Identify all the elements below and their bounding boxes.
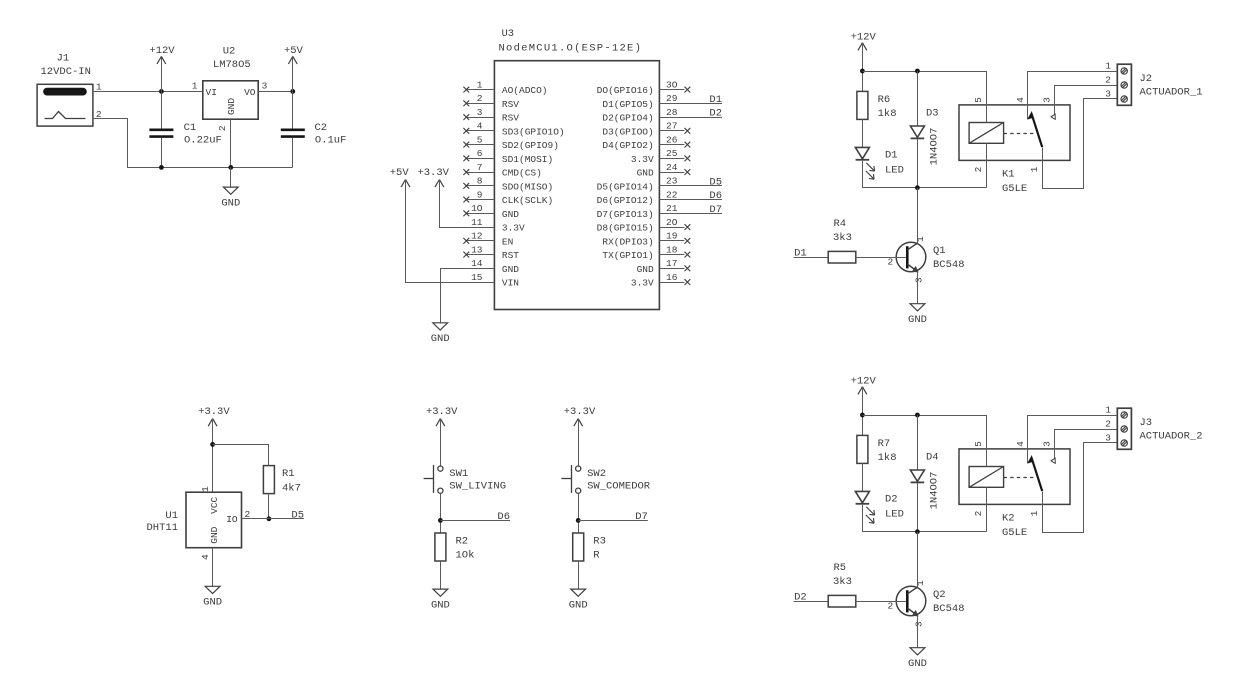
svg-text:+5V: +5V [390, 167, 410, 179]
svg-text:D7: D7 [635, 511, 648, 523]
svg-text:25: 25 [666, 148, 678, 159]
svg-text:3: 3 [1105, 433, 1111, 444]
svg-text:4: 4 [477, 121, 483, 132]
svg-text:3: 3 [477, 107, 483, 118]
svg-text:14: 14 [471, 258, 483, 269]
diode D3 1N4007 flyback [917, 71, 919, 126]
svg-text:R3: R3 [593, 536, 606, 548]
svg-text:SD3(GPIO1O): SD3(GPIO1O) [502, 126, 565, 137]
svg-text:O.1uF: O.1uF [315, 135, 347, 147]
U3 pin 24 GND [659, 172, 684, 174]
svg-text:3: 3 [262, 80, 268, 91]
regulator U2 LM7805 [203, 81, 258, 119]
svg-text:3.3V: 3.3V [502, 223, 525, 234]
wire J1 pin1 to LM7805 VI [93, 91, 203, 93]
svg-text:2: 2 [888, 256, 894, 267]
junction U2 GND node [228, 165, 233, 170]
junction +5V node [290, 89, 295, 94]
wire U3 GND pin14 to ground [441, 269, 495, 323]
svg-text:D5(GPIO14): D5(GPIO14) [597, 181, 654, 192]
svg-text:3: 3 [914, 621, 925, 627]
wire R6 to LED [862, 119, 864, 147]
wire D1 to R4 [794, 257, 829, 259]
svg-text:GND: GND [226, 98, 237, 115]
U3 pin 8 SDO(MISO) [466, 185, 495, 187]
resistor R2 10k pulldown [435, 533, 446, 561]
wire J1 pin2 to ground rail [93, 119, 293, 168]
svg-text:D5: D5 [709, 176, 722, 188]
svg-text:C1: C1 [184, 122, 197, 134]
U3 pin 7 CMD(CS) [466, 172, 495, 174]
junction transistor collector node [915, 185, 920, 190]
U3 pin 26 D4(GPIO2) [659, 144, 684, 146]
wire SW2 to junction [578, 493, 580, 533]
svg-text:D1(GPIO5): D1(GPIO5) [602, 99, 653, 110]
wire Q2 emitter to ground [917, 616, 919, 648]
svg-text:1Ok: 1Ok [456, 550, 475, 562]
K2 pin 5 coil+ [986, 415, 988, 467]
svg-text:+5V: +5V [284, 45, 304, 57]
svg-text:2: 2 [1105, 419, 1111, 430]
K1 pin 2 coil- [986, 143, 988, 187]
svg-text:5: 5 [477, 134, 483, 145]
wire R1 to IO line [268, 494, 270, 519]
svg-text:5: 5 [973, 441, 984, 447]
svg-text:2: 2 [1105, 75, 1111, 86]
power +12V (K2 channel) [858, 387, 862, 395]
svg-text:3: 3 [1042, 97, 1053, 103]
svg-text:1: 1 [1105, 405, 1111, 416]
svg-text:BC548: BC548 [933, 259, 965, 271]
svg-text:13: 13 [471, 244, 483, 255]
svg-text:2: 2 [217, 125, 228, 131]
wire R3 to ground [578, 561, 580, 589]
svg-text:+12V: +12V [851, 31, 877, 43]
svg-text:11: 11 [471, 217, 483, 228]
junction C1 ground [159, 165, 164, 170]
svg-text:BC548: BC548 [933, 603, 965, 615]
svg-text:R: R [593, 550, 600, 562]
svg-text:12: 12 [471, 231, 483, 242]
svg-text:VI: VI [206, 87, 217, 98]
resistor R3 R pulldown [573, 533, 584, 561]
junction SW2 output [576, 518, 581, 523]
svg-text:GND: GND [209, 526, 220, 543]
svg-text:1N4OO7: 1N4OO7 [929, 128, 941, 166]
wire branch to R1 [213, 445, 269, 466]
svg-text:28: 28 [666, 107, 678, 118]
power +12V (K1 channel) [858, 43, 862, 51]
svg-text:R1: R1 [282, 468, 295, 480]
svg-text:16: 16 [666, 272, 678, 283]
U3 pin 29 D1(GPIO5) [659, 103, 722, 105]
svg-text:Q1: Q1 [933, 245, 946, 257]
svg-text:1: 1 [1105, 61, 1111, 72]
svg-text:D4: D4 [926, 452, 939, 464]
switch SW1 SW_LIVING [438, 466, 443, 471]
connector J2 ACTUADOR_1 [1117, 64, 1131, 105]
svg-text:2O: 2O [666, 217, 678, 228]
svg-text:19: 19 [666, 231, 678, 242]
svg-text:GND: GND [908, 314, 927, 326]
svg-text:15: 15 [471, 272, 483, 283]
ground (Q1) [910, 304, 925, 311]
svg-text:Q2: Q2 [933, 589, 946, 601]
svg-text:4: 4 [200, 554, 211, 560]
K2 pin 2 coil- [986, 487, 988, 531]
junction R1 / IO node [267, 516, 272, 521]
svg-text:J1: J1 [57, 52, 70, 64]
junction diode branch top [915, 69, 920, 74]
connector J3 ACTUADOR_2 [1117, 408, 1131, 449]
wire to net label D6 [440, 520, 510, 522]
U3 pin 17 GND [659, 268, 684, 270]
svg-text:D6(GPIO12): D6(GPIO12) [597, 195, 654, 206]
svg-text:D2(GPIO4): D2(GPIO4) [602, 113, 653, 124]
svg-text:U2: U2 [223, 46, 236, 58]
wire R4 to Q1 base [856, 257, 906, 259]
wire R5 to Q2 base [856, 601, 906, 603]
wire +12V down to rail [862, 387, 864, 436]
svg-text:RSV: RSV [502, 99, 519, 110]
junction +12V rail left [860, 69, 865, 74]
wire +12V rail [862, 415, 986, 417]
svg-text:D8(GPIO15): D8(GPIO15) [597, 223, 654, 234]
junction transistor collector node [915, 529, 920, 534]
svg-text:D4(GPIO2): D4(GPIO2) [602, 140, 653, 151]
svg-text:6: 6 [477, 148, 483, 159]
switch SW2 SW_COMEDOR [576, 466, 581, 471]
svg-text:29: 29 [666, 93, 678, 104]
svg-text:O.22uF: O.22uF [184, 135, 222, 147]
U3 pin 19 RX(DPIO3) [659, 240, 684, 242]
svg-text:NodeMCU1.O(ESP-12E): NodeMCU1.O(ESP-12E) [499, 43, 643, 55]
wire +5V to U3 VIN pin15 [406, 180, 495, 283]
svg-text:SD1(MOSI): SD1(MOSI) [502, 154, 553, 165]
U3 pin 18 TX(GPIO1) [659, 254, 684, 256]
svg-text:G5LE: G5LE [1002, 527, 1027, 539]
svg-text:CMD(CS): CMD(CS) [502, 168, 542, 179]
ground (SW1) [433, 589, 448, 596]
svg-text:3k3: 3k3 [833, 576, 852, 588]
transistor Q2 BC548 [917, 532, 919, 587]
svg-text:8: 8 [477, 176, 483, 187]
svg-text:+12V: +12V [851, 375, 877, 387]
svg-text:TX(GPIO1): TX(GPIO1) [602, 250, 653, 261]
wire U1 IO to net label D5 [242, 518, 305, 520]
resistor R6 1k8 [857, 91, 868, 119]
U3 pin 23 D5(GPIO14) [659, 185, 722, 187]
U3 pin 6 SD1(MOSI) [466, 158, 495, 160]
svg-text:+12V: +12V [149, 45, 175, 57]
svg-text:RSV: RSV [502, 113, 519, 124]
capacitor C1 0.22uF [161, 91, 163, 128]
svg-text:DHT11: DHT11 [146, 522, 178, 534]
svg-text:+3.3V: +3.3V [426, 406, 458, 418]
U3 pin 13 RST [466, 254, 495, 256]
svg-text:R4: R4 [834, 218, 847, 230]
wire +3.3V to SW2 [578, 419, 580, 466]
svg-text:D1: D1 [885, 149, 898, 161]
wire +12V down to rail [862, 43, 864, 92]
svg-text:GND: GND [203, 597, 222, 609]
svg-text:4k7: 4k7 [282, 482, 301, 494]
svg-text:3O: 3O [666, 79, 678, 90]
svg-text:D7(GPIO13): D7(GPIO13) [597, 209, 654, 220]
wire +3.3V down to U1 VCC [212, 419, 214, 493]
power +3.3V (to 3.3V pin11) [435, 180, 439, 188]
wire U2 GND pin down [230, 119, 232, 167]
svg-text:2: 2 [888, 600, 894, 611]
svg-text:GND: GND [908, 658, 927, 670]
U3 pin 28 D2(GPIO4) [659, 117, 722, 119]
wire R2 to ground [440, 561, 442, 589]
power +3.3V (SW1) [436, 419, 440, 427]
svg-text:2: 2 [973, 166, 984, 172]
svg-text:D2: D2 [709, 108, 722, 120]
ground (power supply) [230, 167, 232, 187]
power +5V (regulator output) [292, 56, 294, 91]
svg-text:D5: D5 [291, 509, 304, 521]
svg-text:24: 24 [666, 162, 678, 173]
svg-text:+3.3V: +3.3V [417, 167, 449, 179]
relay K2 G5LE [959, 449, 1070, 505]
relay K1 G5LE [959, 105, 1070, 160]
wire +3.3V to SW1 [440, 419, 442, 466]
svg-text:RX(DPIO3): RX(DPIO3) [602, 236, 653, 247]
wire +12V rail [862, 71, 986, 73]
svg-text:3: 3 [914, 277, 925, 283]
svg-text:3: 3 [1042, 441, 1053, 447]
svg-text:C2: C2 [315, 122, 328, 134]
junction diode branch top [915, 413, 920, 418]
svg-text:U1: U1 [165, 510, 178, 522]
svg-text:ACTUADOR_1: ACTUADOR_1 [1140, 87, 1203, 99]
svg-text:1: 1 [915, 580, 926, 586]
svg-text:ACTUADOR_2: ACTUADOR_2 [1140, 431, 1203, 443]
svg-text:4: 4 [1015, 441, 1026, 447]
resistor R5 3k3 [828, 595, 856, 607]
svg-text:VO: VO [244, 87, 256, 98]
U3 pin 27 D3(GPIO0) [659, 130, 684, 132]
svg-text:1: 1 [192, 80, 198, 91]
svg-text:R7: R7 [878, 438, 891, 450]
svg-text:VCC: VCC [209, 496, 220, 513]
U3 pin 10 GND [466, 213, 495, 215]
transistor Q1 BC548 [917, 188, 919, 243]
svg-text:17: 17 [666, 258, 677, 269]
svg-text:GND: GND [221, 197, 240, 209]
U3 pin 15 VIN [466, 282, 495, 284]
svg-text:GND: GND [569, 599, 588, 611]
wire LED to bottom rail [862, 505, 864, 532]
svg-text:LED: LED [885, 164, 904, 176]
K1 pin 1 common [1043, 99, 1118, 189]
wire bottom rail [862, 187, 986, 189]
svg-text:DO(GPIO16): DO(GPIO16) [597, 85, 654, 96]
svg-text:3.3V: 3.3V [631, 278, 654, 289]
U3 pin 12 EN [466, 240, 495, 242]
power +3.3V (SW2) [574, 419, 578, 427]
wire R7 to LED [862, 463, 864, 491]
svg-text:26: 26 [666, 134, 678, 145]
svg-text:1N4OO7: 1N4OO7 [929, 472, 941, 510]
svg-text:1: 1 [915, 236, 926, 242]
svg-text:SW2: SW2 [587, 468, 606, 480]
svg-text:2: 2 [973, 510, 984, 516]
K2 pin 4 NO contact [1028, 416, 1101, 464]
svg-text:VIN: VIN [502, 278, 519, 289]
svg-text:D2: D2 [885, 493, 898, 505]
wire D2 to R5 [794, 601, 829, 603]
svg-text:GND: GND [502, 264, 519, 275]
svg-text:SDO(MISO): SDO(MISO) [502, 181, 553, 192]
K1 pin 5 coil+ [986, 71, 988, 123]
svg-text:IO: IO [226, 514, 238, 525]
power +5V (to VIN) [401, 180, 405, 188]
wire +3.3V to U3 pin11 [440, 180, 495, 228]
K2 pin 3 NC contact [1055, 430, 1118, 459]
U3 pin 2 RSV [466, 103, 495, 105]
K1 pin 3 NC contact [1055, 86, 1118, 115]
ground (Q2) [910, 648, 925, 655]
sensor U1 DHT11 [186, 492, 242, 548]
svg-text:K2: K2 [1002, 513, 1015, 525]
K1 pin 4 NO contact [1028, 72, 1101, 120]
svg-text:LED: LED [885, 508, 904, 520]
svg-text:23: 23 [666, 176, 678, 187]
svg-text:GND: GND [502, 209, 519, 220]
svg-text:1O: 1O [471, 203, 483, 214]
svg-text:5: 5 [973, 97, 984, 103]
svg-text:GND: GND [431, 599, 450, 611]
svg-text:D3: D3 [926, 108, 939, 120]
svg-text:1k8: 1k8 [878, 452, 897, 464]
svg-text:LM78O5: LM78O5 [213, 59, 251, 71]
power +3.3V (DHT11) [208, 419, 212, 427]
svg-text:RST: RST [502, 250, 519, 261]
U3 pin 4 SD3(GPIO10) [466, 130, 495, 132]
wire bottom rail [862, 531, 986, 533]
wire U2 VO to +5V node [258, 91, 293, 93]
svg-text:D6: D6 [497, 511, 510, 523]
svg-text:4: 4 [1015, 97, 1026, 103]
junction +3.3V / R1 branch [210, 442, 215, 447]
U3 pin 9 CLK(SCLK) [466, 199, 495, 201]
U3 pin 1 A0(ADC0) [466, 89, 495, 91]
svg-text:SW_COMEDOR: SW_COMEDOR [587, 481, 651, 493]
svg-text:D1: D1 [709, 94, 722, 106]
ground (U3) [433, 323, 448, 330]
MCU module U3 NodeMCU1.0(ESP-12E) [494, 61, 659, 310]
K2 pin 1 common [1043, 443, 1118, 533]
junction SW1 output [438, 518, 443, 523]
resistor R4 3k3 [828, 251, 856, 263]
svg-text:1: 1 [477, 79, 483, 90]
svg-text:R5: R5 [834, 562, 847, 574]
svg-text:D6: D6 [709, 190, 722, 202]
svg-text:3: 3 [1105, 89, 1111, 100]
svg-text:SD2(GPIO9): SD2(GPIO9) [502, 140, 559, 151]
svg-text:R6: R6 [878, 94, 891, 106]
power +12V (regulator input) [161, 56, 163, 91]
wire to net label D7 [578, 520, 648, 522]
svg-text:CLK(SCLK): CLK(SCLK) [502, 195, 553, 206]
svg-text:1: 1 [1029, 510, 1040, 516]
svg-text:21: 21 [666, 203, 678, 214]
svg-text:7: 7 [477, 162, 483, 173]
svg-text:G5LE: G5LE [1002, 183, 1027, 195]
svg-text:EN: EN [502, 236, 513, 247]
U3 pin 21 D7(GPIO13) [659, 213, 722, 215]
capacitor C2 0.1uF [292, 91, 294, 128]
junction +12V node [159, 89, 164, 94]
U3 pin 11 3.3V [466, 227, 495, 229]
svg-text:+3.3V: +3.3V [564, 406, 596, 418]
svg-text:1: 1 [200, 486, 211, 492]
U3 pin 5 SD2(GPIO9) [466, 144, 495, 146]
svg-text:K1: K1 [1002, 169, 1015, 181]
svg-text:GND: GND [637, 264, 654, 275]
svg-text:1k8: 1k8 [878, 108, 897, 120]
svg-text:18: 18 [666, 244, 678, 255]
svg-text:27: 27 [666, 121, 677, 132]
svg-text:3.3V: 3.3V [631, 154, 654, 165]
svg-text:9: 9 [477, 189, 483, 200]
resistor R7 1k8 [857, 435, 868, 463]
U3 pin 25 3.3V [659, 158, 684, 160]
resistor R1 4k7 pullup [263, 466, 274, 494]
U3 pin 14 GND [466, 268, 495, 270]
U3 pin 3 RSV [466, 117, 495, 119]
wire SW1 to junction [440, 493, 442, 533]
U3 pin 20 D8(GPIO15) [659, 227, 684, 229]
ground (SW2) [571, 589, 586, 596]
LED D2 [855, 491, 869, 502]
svg-text:1: 1 [96, 82, 102, 93]
ground (DHT11) [205, 586, 220, 593]
svg-text:+3.3V: +3.3V [198, 406, 230, 418]
svg-text:R2: R2 [456, 536, 469, 548]
wire J2 pin1 stub [1100, 71, 1117, 73]
U3 pin 16 3.3V [659, 282, 684, 284]
LED D1 [855, 147, 869, 158]
U3 pin 30 D0(GPIO16) [659, 89, 684, 91]
svg-text:D7: D7 [709, 204, 722, 216]
svg-text:D3(GPIOO): D3(GPIOO) [602, 126, 653, 137]
junction +12V rail left [860, 413, 865, 418]
svg-text:22: 22 [666, 189, 678, 200]
svg-text:SW_LIVING: SW_LIVING [449, 481, 506, 493]
U3 pin 22 D6(GPIO12) [659, 199, 722, 201]
svg-text:12VDC-IN: 12VDC-IN [40, 66, 90, 78]
svg-text:U3: U3 [502, 28, 515, 40]
svg-text:J3: J3 [1140, 417, 1153, 429]
svg-text:GND: GND [431, 333, 450, 345]
wire J3 pin1 stub [1100, 415, 1117, 417]
svg-text:SW1: SW1 [449, 468, 468, 480]
svg-text:AO(ADCO): AO(ADCO) [502, 85, 548, 96]
connector J1 12VDC-IN barrel jack [37, 84, 93, 126]
svg-text:1: 1 [1029, 166, 1040, 172]
svg-text:GND: GND [637, 168, 654, 179]
wire U1 GND down [212, 548, 214, 587]
diode D4 1N4007 flyback [917, 415, 919, 470]
wire LED to bottom rail [862, 161, 864, 188]
svg-text:J2: J2 [1140, 73, 1153, 85]
svg-text:3k3: 3k3 [833, 232, 852, 244]
svg-text:2: 2 [477, 93, 483, 104]
